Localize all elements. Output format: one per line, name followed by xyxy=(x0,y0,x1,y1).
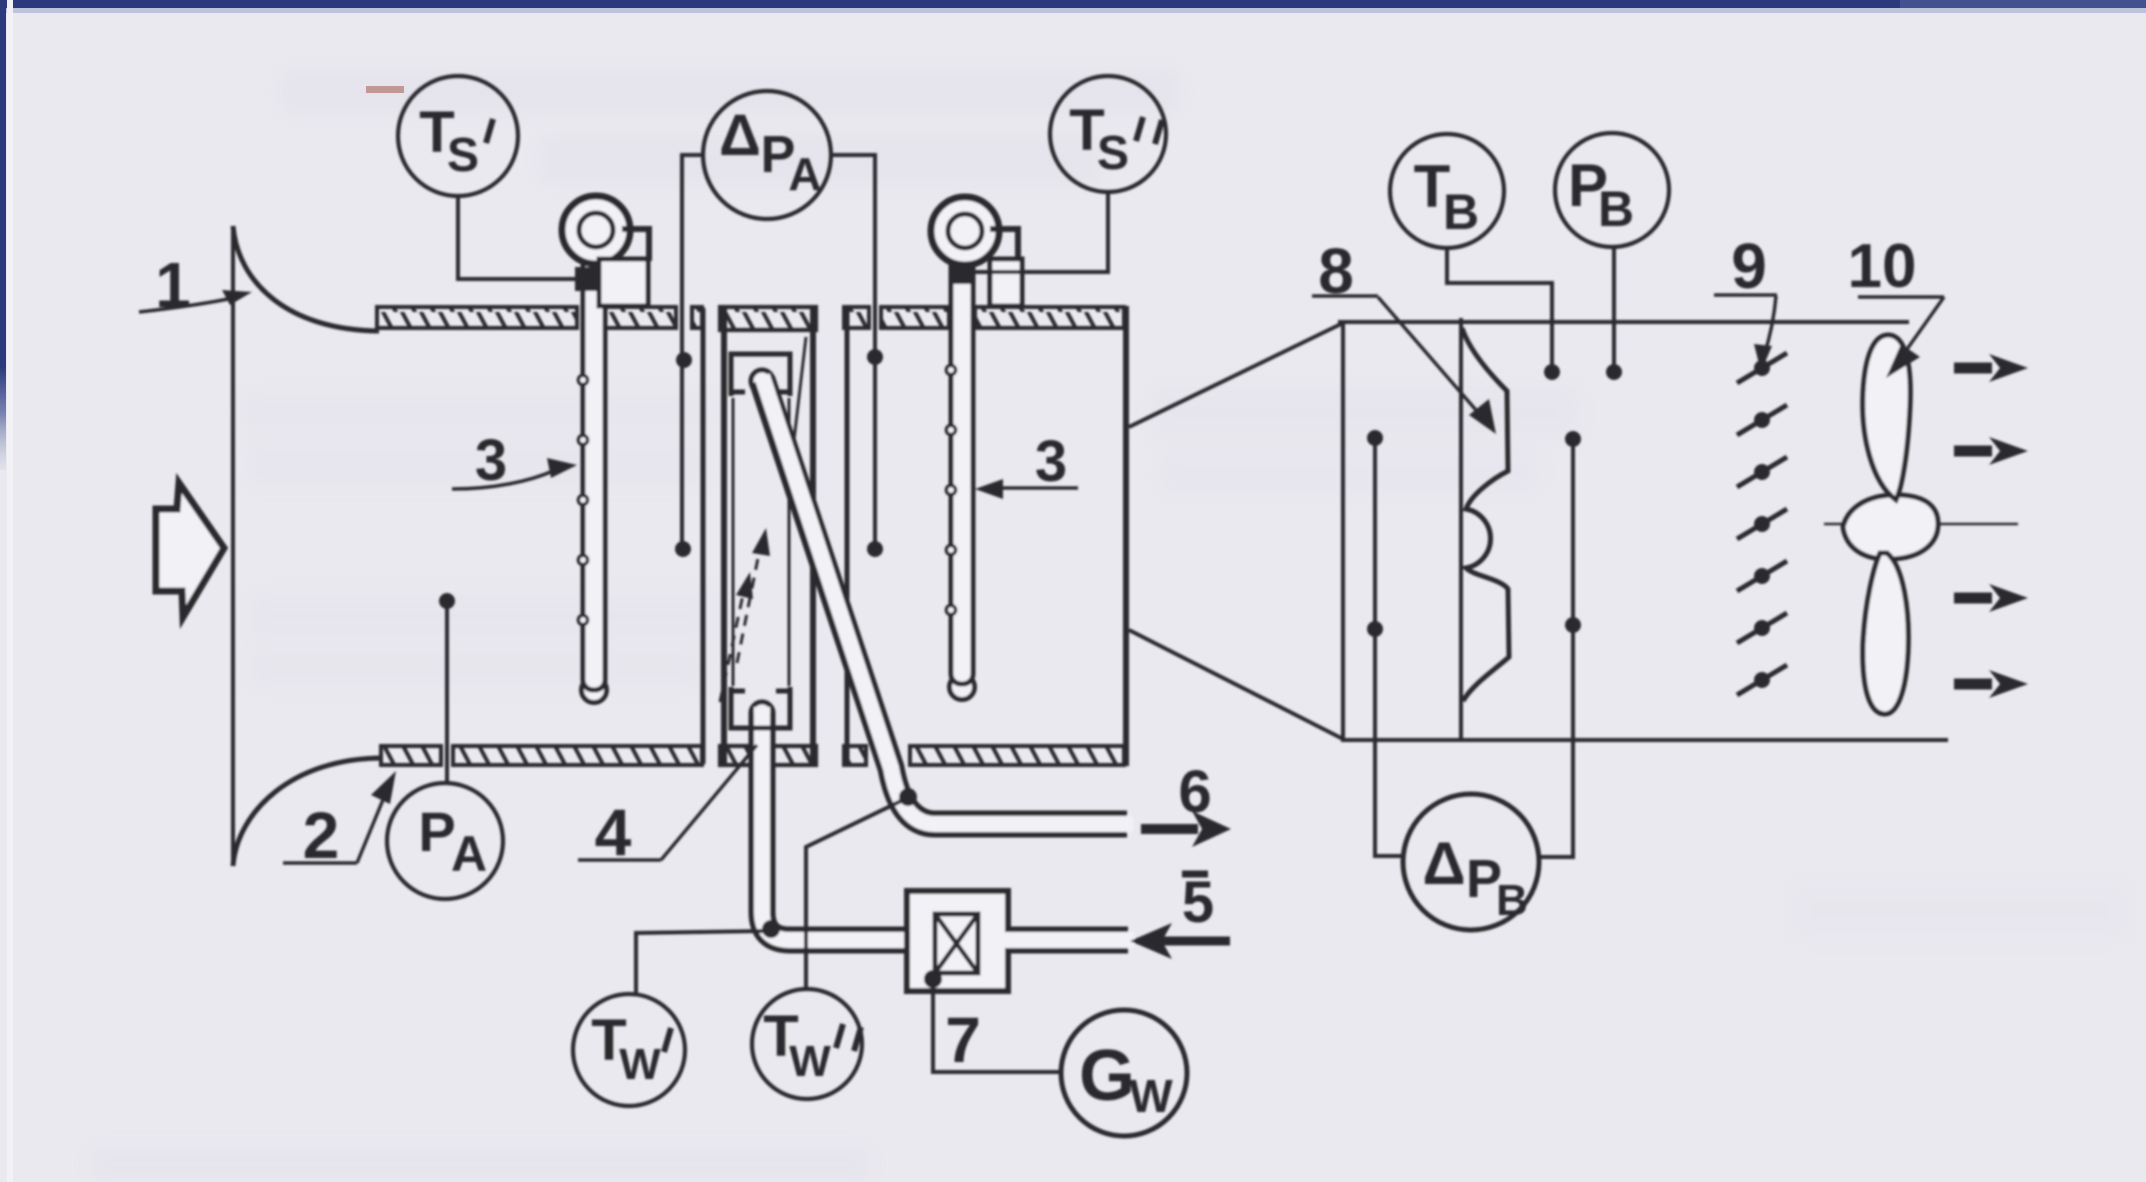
svg-text:S: S xyxy=(447,129,479,182)
inlet pipe through box xyxy=(1004,927,1134,954)
svg-text:G: G xyxy=(1079,1036,1135,1116)
crossed element inside box 7 xyxy=(935,914,978,973)
svg-text:S: S xyxy=(1097,127,1129,180)
wire from T_W'' to outlet pipe elbow xyxy=(806,801,901,988)
flow nozzle 8 mounting line xyxy=(1459,318,1463,739)
svg-text:W: W xyxy=(789,1037,831,1086)
heat exchanger bottom flange xyxy=(731,687,790,728)
louver vanes 9 xyxy=(1737,353,1787,695)
dP_B downstream tap xyxy=(1541,438,1573,857)
svg-text:A: A xyxy=(451,826,487,882)
outflow arrow 2 xyxy=(1954,437,2028,465)
svg-text:3: 3 xyxy=(475,428,507,493)
wire from P_B to duct probe xyxy=(1612,247,1616,370)
instrument circle P_A xyxy=(387,783,503,899)
svg-text:8: 8 xyxy=(1318,235,1354,307)
label 3 (duct B) leader arrow xyxy=(975,479,1078,499)
heat exchanger top flange xyxy=(731,354,790,396)
fan section top wall xyxy=(1338,320,1909,324)
wire from T_S'' to thermometer xyxy=(975,192,1108,272)
inlet bellmouth upper lip xyxy=(233,226,379,331)
flow nozzle 8 profile xyxy=(1462,328,1509,701)
duct A bottom wall (hatched) xyxy=(381,746,702,765)
tap node dot xyxy=(439,593,455,609)
duct B bottom wall (hatched) xyxy=(844,746,1124,765)
svg-text:Δ: Δ xyxy=(1422,830,1465,897)
svg-text:9: 9 xyxy=(1731,230,1767,302)
heat exchanger inlet pipe (vertical, from valve 7) xyxy=(751,702,909,940)
water flow-meter / valve box 7 xyxy=(907,891,1008,991)
svg-text:W: W xyxy=(1129,1070,1173,1122)
label 8 leader arrow xyxy=(1312,296,1496,434)
svg-text:3: 3 xyxy=(1035,429,1067,494)
svg-text:A: A xyxy=(788,148,821,200)
thermometer 3 (duct B) stem xyxy=(951,256,973,684)
instrument circle T_S'' xyxy=(1050,76,1166,192)
diffuser cone upper line xyxy=(1129,324,1341,427)
heat-exchanger section bottom wall (hatched) xyxy=(720,746,816,765)
label 4 leader line xyxy=(578,745,757,860)
inlet bellmouth lower lip xyxy=(233,758,383,866)
thin gusset line at heat exchanger top xyxy=(794,337,806,440)
inlet bellmouth vertical edge (1) xyxy=(231,226,235,866)
connector block on thermometer (duct A) xyxy=(575,267,601,291)
svg-text:7: 7 xyxy=(945,1004,981,1076)
fan blade bottom xyxy=(1863,553,1908,714)
instrument circle G_W xyxy=(1061,1010,1187,1136)
label 2 leader arrow xyxy=(283,771,396,863)
instrument circle T_B xyxy=(1390,134,1504,248)
connector block on thermometer (duct B) xyxy=(950,262,975,284)
thermometer 3 (duct B) scale notches xyxy=(946,365,955,614)
fan section left wall xyxy=(1341,322,1345,740)
svg-text:2: 2 xyxy=(303,798,340,872)
wire from T_W' to inlet pipe elbow xyxy=(636,931,764,995)
svg-text:5: 5 xyxy=(1182,870,1214,935)
svg-text:Δ: Δ xyxy=(719,103,761,168)
instrument circle T_S' xyxy=(398,76,518,196)
label 4 dashed pointer a xyxy=(737,528,770,663)
static tap line to P_A xyxy=(445,602,449,784)
svg-text:1: 1 xyxy=(155,249,191,321)
svg-text:W: W xyxy=(619,1040,661,1089)
label 1 leader arrow xyxy=(139,290,252,312)
label 3 (duct A) leader arrow xyxy=(452,458,577,489)
svg-text:B: B xyxy=(1598,181,1634,237)
inflow block arrow xyxy=(156,483,224,617)
thermometer 3 (duct A) bulb xyxy=(582,678,607,703)
fan section bottom wall xyxy=(1341,738,1948,742)
red scan speck xyxy=(366,86,404,93)
duct A top wall (hatched) xyxy=(377,307,702,328)
gland step fitting (duct B) xyxy=(990,229,1018,261)
wire from T_S' to thermometer xyxy=(458,196,575,279)
blue page border top xyxy=(0,0,2146,8)
label 9 leader arrow xyxy=(1714,295,1777,372)
heat exchanger water pipe (diagonal, to outlet 6) xyxy=(751,370,1133,824)
wire from box 7 to G_W xyxy=(933,986,1062,1072)
duct B top wall (hatched) xyxy=(844,307,1124,328)
outflow arrow 3 xyxy=(1954,584,2028,612)
thermometer 3 (duct A) scale notches xyxy=(578,375,587,624)
svg-text:B: B xyxy=(1496,876,1528,925)
blue page border left xyxy=(0,0,6,470)
fan axis line xyxy=(1824,523,2018,526)
heat exchanger inner liner left xyxy=(732,398,735,686)
heat-exchanger section top wall (hatched) xyxy=(720,307,816,330)
differential pressure tap (downstream) for dP_A xyxy=(830,155,875,550)
gland ring of thermometer 3 (duct B) xyxy=(931,197,999,265)
heat-exchanger left wall xyxy=(721,307,727,765)
instrument circle T_W' xyxy=(573,994,685,1106)
outflow arrow 4 xyxy=(1954,670,2028,698)
svg-text:6: 6 xyxy=(1178,758,1211,825)
node dot at outlet pipe elbow (T_W'' tapping) xyxy=(899,788,917,806)
svg-text:10: 10 xyxy=(1848,232,1917,301)
dP_B upstream tap xyxy=(1375,437,1402,856)
label 4 dashed pointer b xyxy=(720,572,753,702)
gland ring of thermometer 3 (duct A) xyxy=(562,196,630,264)
outflow arrow 1 xyxy=(1954,354,2028,382)
heat-exchanger right wall xyxy=(810,307,816,765)
water inlet arrow 5 xyxy=(1130,874,1230,959)
svg-text:4: 4 xyxy=(595,795,632,869)
water outlet arrow 6 xyxy=(1141,811,1231,847)
svg-text:B: B xyxy=(1443,184,1479,240)
duct B right end wall xyxy=(1123,306,1129,766)
diffuser cone lower line xyxy=(1129,630,1343,739)
fan hub xyxy=(1843,495,1938,559)
thermometer 3 (duct A) stem xyxy=(583,256,605,690)
heat exchanger inner liner right xyxy=(788,398,791,686)
gland step fitting (duct A) xyxy=(622,229,649,261)
node dot at inlet pipe elbow (T_W' tapping) xyxy=(762,920,780,938)
label 10 leader arrow xyxy=(1858,297,1944,378)
instrument circle T_W'' xyxy=(752,989,862,1099)
instrument circle P_B xyxy=(1555,133,1669,247)
duct B left wall xyxy=(845,308,850,764)
instrument circle dP_A xyxy=(703,91,831,219)
instrument circle dP_B xyxy=(1403,794,1539,930)
differential pressure tap (upstream) for dP_A xyxy=(682,155,704,550)
wire from T_B to duct probe xyxy=(1447,248,1552,370)
node dot on box 7 xyxy=(924,970,942,988)
thermometer 3 (duct B) bulb xyxy=(950,675,975,700)
fan blade top (10) xyxy=(1863,335,1911,500)
duct A right end wall xyxy=(701,308,706,764)
